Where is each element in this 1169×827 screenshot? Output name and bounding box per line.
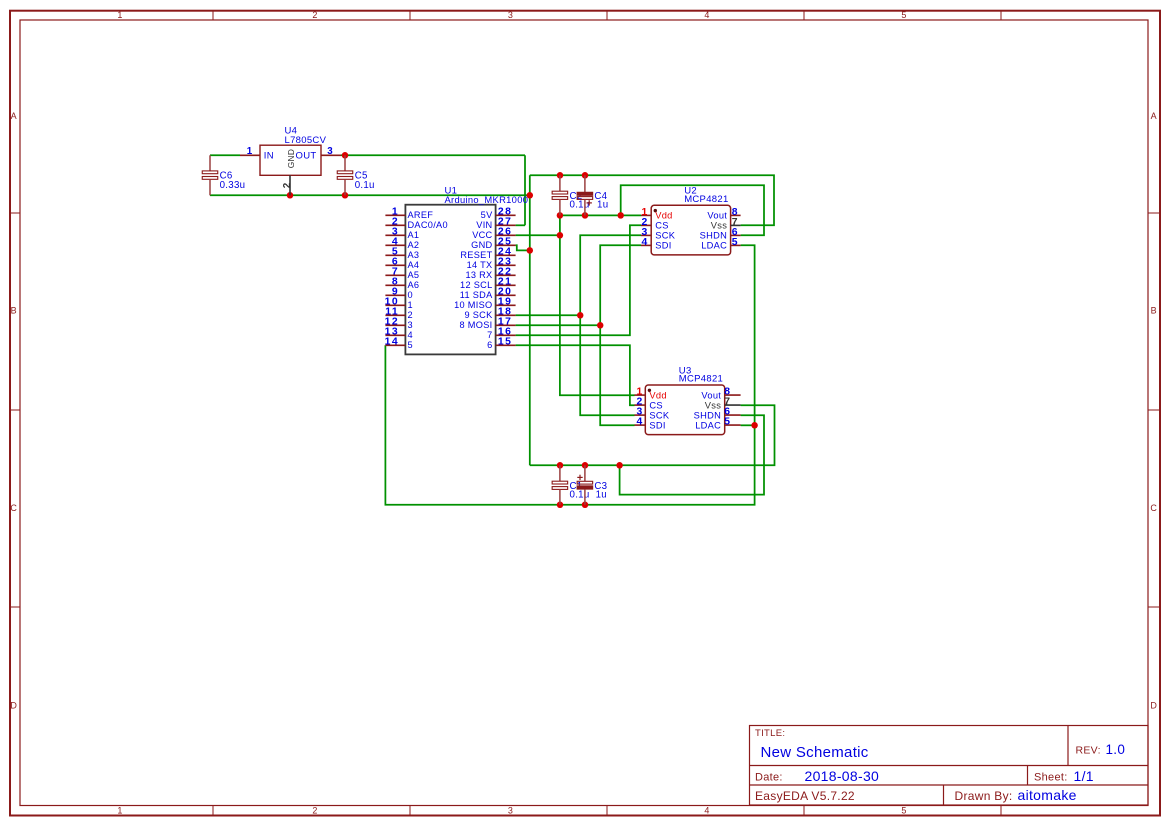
U1 pin 24 RESET xyxy=(460,247,515,261)
svg-text:LDAC: LDAC xyxy=(695,420,721,430)
svg-text:1/1: 1/1 xyxy=(1074,768,1094,784)
node GND at U1 pin25 xyxy=(527,247,534,254)
frame row tick marks (right) xyxy=(1148,212,1160,214)
DAC U3 MCP4821 xyxy=(645,365,724,434)
svg-text:SHDN: SHDN xyxy=(700,231,728,241)
svg-text:SDI: SDI xyxy=(655,241,671,251)
svg-text:TITLE:: TITLE: xyxy=(755,728,785,739)
svg-text:5: 5 xyxy=(724,417,730,428)
svg-text:1: 1 xyxy=(117,806,122,816)
svg-text:5: 5 xyxy=(408,340,413,350)
wire SCK net U2 to U3 xyxy=(580,235,641,415)
svg-text:1u: 1u xyxy=(597,200,608,211)
svg-text:REV:: REV: xyxy=(1076,745,1101,757)
U1 pin 3 A1 xyxy=(385,227,419,241)
svg-text:C: C xyxy=(10,503,17,513)
svg-text:4: 4 xyxy=(637,417,643,428)
svg-text:SCK: SCK xyxy=(655,231,676,241)
U1 pin 27 VIN xyxy=(476,217,515,231)
node GND rail junction xyxy=(527,192,534,199)
svg-text:10 MISO: 10 MISO xyxy=(454,300,492,310)
U3 pin 1 Vdd xyxy=(635,387,667,401)
svg-text:OUT: OUT xyxy=(296,150,317,161)
svg-text:D: D xyxy=(10,701,17,711)
svg-text:A2: A2 xyxy=(408,240,420,250)
node VCC at C4 bottom xyxy=(582,212,589,219)
svg-text:1u: 1u xyxy=(596,490,607,501)
svg-text:Arduino_MKR1000: Arduino_MKR1000 xyxy=(445,194,529,205)
node 5V at C5 top xyxy=(342,152,349,159)
svg-text:VCC: VCC xyxy=(472,230,492,240)
svg-text:12 SCL: 12 SCL xyxy=(460,280,492,290)
wire VIN stub link xyxy=(516,224,525,226)
microcontroller U1 Arduino_MKR1000 xyxy=(405,186,528,355)
svg-text:A4: A4 xyxy=(408,260,420,270)
svg-text:0.1u: 0.1u xyxy=(355,180,375,191)
svg-text:2018-08-30: 2018-08-30 xyxy=(805,768,880,784)
U1 pin 5 A3 xyxy=(385,247,419,261)
wire U1 pin17 MOSI xyxy=(516,324,601,326)
capacitor C6 0.33u xyxy=(202,155,245,195)
svg-text:0: 0 xyxy=(408,290,413,300)
U1 pin 9 0 xyxy=(385,287,413,301)
svg-text:Vout: Vout xyxy=(707,211,727,221)
wire SDI net U2 to U3 xyxy=(600,245,641,425)
svg-text:aitomake: aitomake xyxy=(1018,787,1077,803)
svg-text:A6: A6 xyxy=(408,280,420,290)
wire U1 pin18 SCK xyxy=(516,314,581,316)
wire GND vertical xyxy=(529,175,531,465)
U1 pin 21 12 SCL xyxy=(460,277,516,291)
node SDI junction xyxy=(597,322,604,329)
U4 pin 1 stub xyxy=(240,154,260,156)
U1 pin 2 DAC0/A0 xyxy=(385,217,448,231)
title block row divider 2 xyxy=(750,784,1149,786)
node GND at C1 top xyxy=(557,462,564,469)
svg-text:EasyEDA V5.7.22: EasyEDA V5.7.22 xyxy=(755,789,855,803)
wire U1 pin15 to U3 CS xyxy=(516,345,635,405)
wire GND bottom rail to U3 Vss xyxy=(530,405,775,465)
wire VCC vertical to U3 Vdd xyxy=(560,215,635,395)
capacitor C5 0.1u xyxy=(337,155,375,195)
node GND SHDN riser xyxy=(616,462,623,469)
U1 pin 7 A5 xyxy=(385,267,419,281)
svg-text:SHDN: SHDN xyxy=(694,410,722,420)
wire U4 OUT 5V rail xyxy=(341,154,525,156)
svg-text:5: 5 xyxy=(901,806,906,816)
svg-text:L7805CV: L7805CV xyxy=(285,135,327,146)
U1 pin 11 2 xyxy=(385,307,413,321)
svg-text:4: 4 xyxy=(408,330,413,340)
U2 pin 6 SHDN xyxy=(700,227,741,241)
svg-text:A1: A1 xyxy=(408,230,420,240)
svg-text:A: A xyxy=(1151,111,1157,121)
title block DrawnBy divider xyxy=(943,785,945,805)
svg-text:Vdd: Vdd xyxy=(655,211,672,221)
svg-text:0.1u: 0.1u xyxy=(570,490,590,501)
svg-text:CS: CS xyxy=(655,221,669,231)
svg-text:14 TX: 14 TX xyxy=(467,260,493,270)
svg-text:New Schematic: New Schematic xyxy=(761,744,869,761)
U1 pin 17 8 MOSI xyxy=(460,317,516,331)
svg-text:4: 4 xyxy=(704,806,709,816)
svg-text:5V: 5V xyxy=(481,210,493,220)
U4 pin 3 stub xyxy=(321,154,341,156)
svg-text:15: 15 xyxy=(498,337,513,348)
svg-text:LDAC: LDAC xyxy=(701,241,727,251)
svg-text:2: 2 xyxy=(312,806,317,816)
svg-text:A5: A5 xyxy=(408,270,420,280)
node GND at C3 top xyxy=(582,462,589,469)
U2 pin 2 CS xyxy=(641,217,669,231)
U1 pin 6 A4 xyxy=(385,257,419,271)
U3 pin 2 CS xyxy=(635,397,663,411)
svg-text:Vss: Vss xyxy=(711,221,727,231)
U1 pin 13 4 xyxy=(385,327,413,341)
node VCC SHDN riser xyxy=(617,212,624,219)
wire U1 VCC to C2 junction xyxy=(516,234,560,236)
capacitor C1 0.1u xyxy=(552,465,589,505)
wire Vdd rail to U2 Vdd xyxy=(560,214,641,216)
svg-text:A3: A3 xyxy=(408,250,420,260)
wire U2 SHDN tie to VCC xyxy=(621,185,764,235)
wire GND top rail to U2 Vss xyxy=(530,175,774,225)
svg-text:5: 5 xyxy=(732,237,738,248)
svg-text:14: 14 xyxy=(385,337,400,348)
node GND at C4 top xyxy=(582,172,589,179)
U1 pin 20 11 SDA xyxy=(460,287,516,301)
wire U3 SHDN tie to GND xyxy=(620,415,764,494)
svg-text:4: 4 xyxy=(642,237,648,248)
wire U3 LDAC stub link xyxy=(741,424,755,426)
U1 pin 14 5 xyxy=(385,337,413,351)
svg-text:Vdd: Vdd xyxy=(649,390,666,400)
U1 pin 10 1 xyxy=(385,297,413,311)
U1 pin 8 A6 xyxy=(385,277,419,291)
svg-text:B: B xyxy=(1151,306,1157,316)
DAC U2 MCP4821 xyxy=(651,186,730,255)
svg-text:2: 2 xyxy=(282,182,293,188)
svg-text:1: 1 xyxy=(117,10,122,20)
node LDAC at C1 bottom xyxy=(557,502,564,509)
frame row tick marks (left) xyxy=(9,212,20,214)
svg-text:0.33u: 0.33u xyxy=(220,180,246,191)
U4 pin 2 GND stub xyxy=(289,175,291,195)
wire 5V drop to VIN xyxy=(524,155,526,225)
node SCK junction xyxy=(577,312,584,319)
wire C6 top to U4 IN xyxy=(210,154,240,156)
capacitor C3 1u polarized xyxy=(577,465,607,505)
U1 pin 18 9 SCK xyxy=(464,307,515,321)
svg-text:Vss: Vss xyxy=(705,400,721,410)
frame column tick marks (top) xyxy=(212,10,214,20)
U1 pin 4 A2 xyxy=(385,237,419,251)
U3 pin 4 SDI xyxy=(635,417,666,431)
svg-text:SCK: SCK xyxy=(649,410,670,420)
svg-text:3: 3 xyxy=(327,146,333,157)
U2 pin 5 LDAC xyxy=(701,237,740,251)
svg-text:11 SDA: 11 SDA xyxy=(460,290,493,300)
U3 pin 5 LDAC xyxy=(695,417,740,431)
frame column tick marks (bottom) xyxy=(212,806,214,817)
svg-text:IN: IN xyxy=(264,150,274,161)
wire U1 pin14 LDAC net bottom rail up to U2 LDAC xyxy=(385,245,754,505)
title block row divider 1 xyxy=(750,765,1149,767)
capacitor C4 1u polarized xyxy=(577,175,608,215)
wire GND rail under U4 xyxy=(210,194,530,196)
svg-text:RESET: RESET xyxy=(460,250,492,260)
node LDAC at U3 xyxy=(751,422,758,429)
U3 pin 6 SHDN xyxy=(694,407,741,421)
node LDAC at C3 bottom xyxy=(582,502,589,509)
U1 pin 15 6 xyxy=(487,337,516,351)
svg-text:D: D xyxy=(1150,701,1157,711)
svg-text:AREF: AREF xyxy=(408,210,434,220)
voltage regulator U4 L7805CV xyxy=(260,126,327,176)
svg-text:CS: CS xyxy=(649,400,663,410)
svg-text:3: 3 xyxy=(508,806,513,816)
U1 pin 19 10 MISO xyxy=(454,297,515,311)
svg-text:B: B xyxy=(11,306,17,316)
U2 pin 4 SDI xyxy=(641,237,672,251)
U3 pin 3 SCK xyxy=(635,407,670,421)
svg-text:1.0: 1.0 xyxy=(1106,742,1126,757)
node GND at U4 pin2 xyxy=(287,192,294,199)
svg-text:2: 2 xyxy=(408,310,413,320)
svg-text:1: 1 xyxy=(247,146,253,157)
U3 pin 7 Vss xyxy=(705,397,741,411)
svg-text:A: A xyxy=(11,111,17,121)
svg-text:13 RX: 13 RX xyxy=(465,270,492,280)
svg-text:4: 4 xyxy=(704,10,709,20)
node VCC at U1 pin26 xyxy=(557,232,564,239)
svg-text:VIN: VIN xyxy=(476,220,492,230)
svg-text:DAC0/A0: DAC0/A0 xyxy=(408,220,448,230)
wire U1 pin16 to U2 CS xyxy=(516,225,641,335)
title block REV divider xyxy=(1067,726,1069,766)
wire U1 pin25 GND jog to GND vertical xyxy=(516,245,530,250)
svg-text:GND: GND xyxy=(286,149,296,168)
svg-text:1: 1 xyxy=(408,300,413,310)
svg-text:6: 6 xyxy=(487,340,492,350)
U1 pin 1 AREF xyxy=(385,207,433,221)
svg-text:3: 3 xyxy=(408,320,413,330)
title block border xyxy=(750,726,1149,806)
U1 pin 16 7 xyxy=(487,327,516,341)
U1 pin 25 GND xyxy=(471,237,515,251)
svg-text:Vout: Vout xyxy=(701,390,721,400)
svg-text:7: 7 xyxy=(487,330,492,340)
svg-text:Drawn By:: Drawn By: xyxy=(955,789,1013,803)
U2 pin 8 Vout xyxy=(707,207,740,221)
svg-text:GND: GND xyxy=(471,240,492,250)
U2 pin 3 SCK xyxy=(641,227,676,241)
U1 pin 12 3 xyxy=(385,317,413,331)
U2 pin 1 Vdd xyxy=(641,207,673,221)
svg-text:MCP4821: MCP4821 xyxy=(679,374,723,385)
U3 pin 8 Vout xyxy=(701,387,740,401)
U2 pin 7 Vss xyxy=(711,217,741,231)
capacitor C2 0.1u xyxy=(552,175,589,215)
U1 pin 22 13 RX xyxy=(465,267,515,281)
svg-text:3: 3 xyxy=(508,10,513,20)
svg-text:MCP4821: MCP4821 xyxy=(684,194,728,205)
title block Sheet divider xyxy=(1027,766,1029,786)
svg-text:5: 5 xyxy=(901,10,906,20)
svg-text:2: 2 xyxy=(312,10,317,20)
U1 pin 28 5V xyxy=(481,207,516,221)
svg-text:C: C xyxy=(1150,503,1157,513)
svg-text:SDI: SDI xyxy=(649,420,665,430)
svg-text:9 SCK: 9 SCK xyxy=(464,310,493,320)
node GND at C2 top xyxy=(557,172,564,179)
U1 pin 23 14 TX xyxy=(467,257,516,271)
node GND at C5 bottom xyxy=(342,192,349,199)
node VCC at C2 bottom xyxy=(557,212,564,219)
svg-text:0.1u: 0.1u xyxy=(570,200,590,211)
svg-text:Date:: Date: xyxy=(755,772,783,784)
svg-text:Sheet:: Sheet: xyxy=(1034,772,1068,784)
svg-text:8 MOSI: 8 MOSI xyxy=(460,320,493,330)
U1 pin 26 VCC xyxy=(472,227,515,241)
